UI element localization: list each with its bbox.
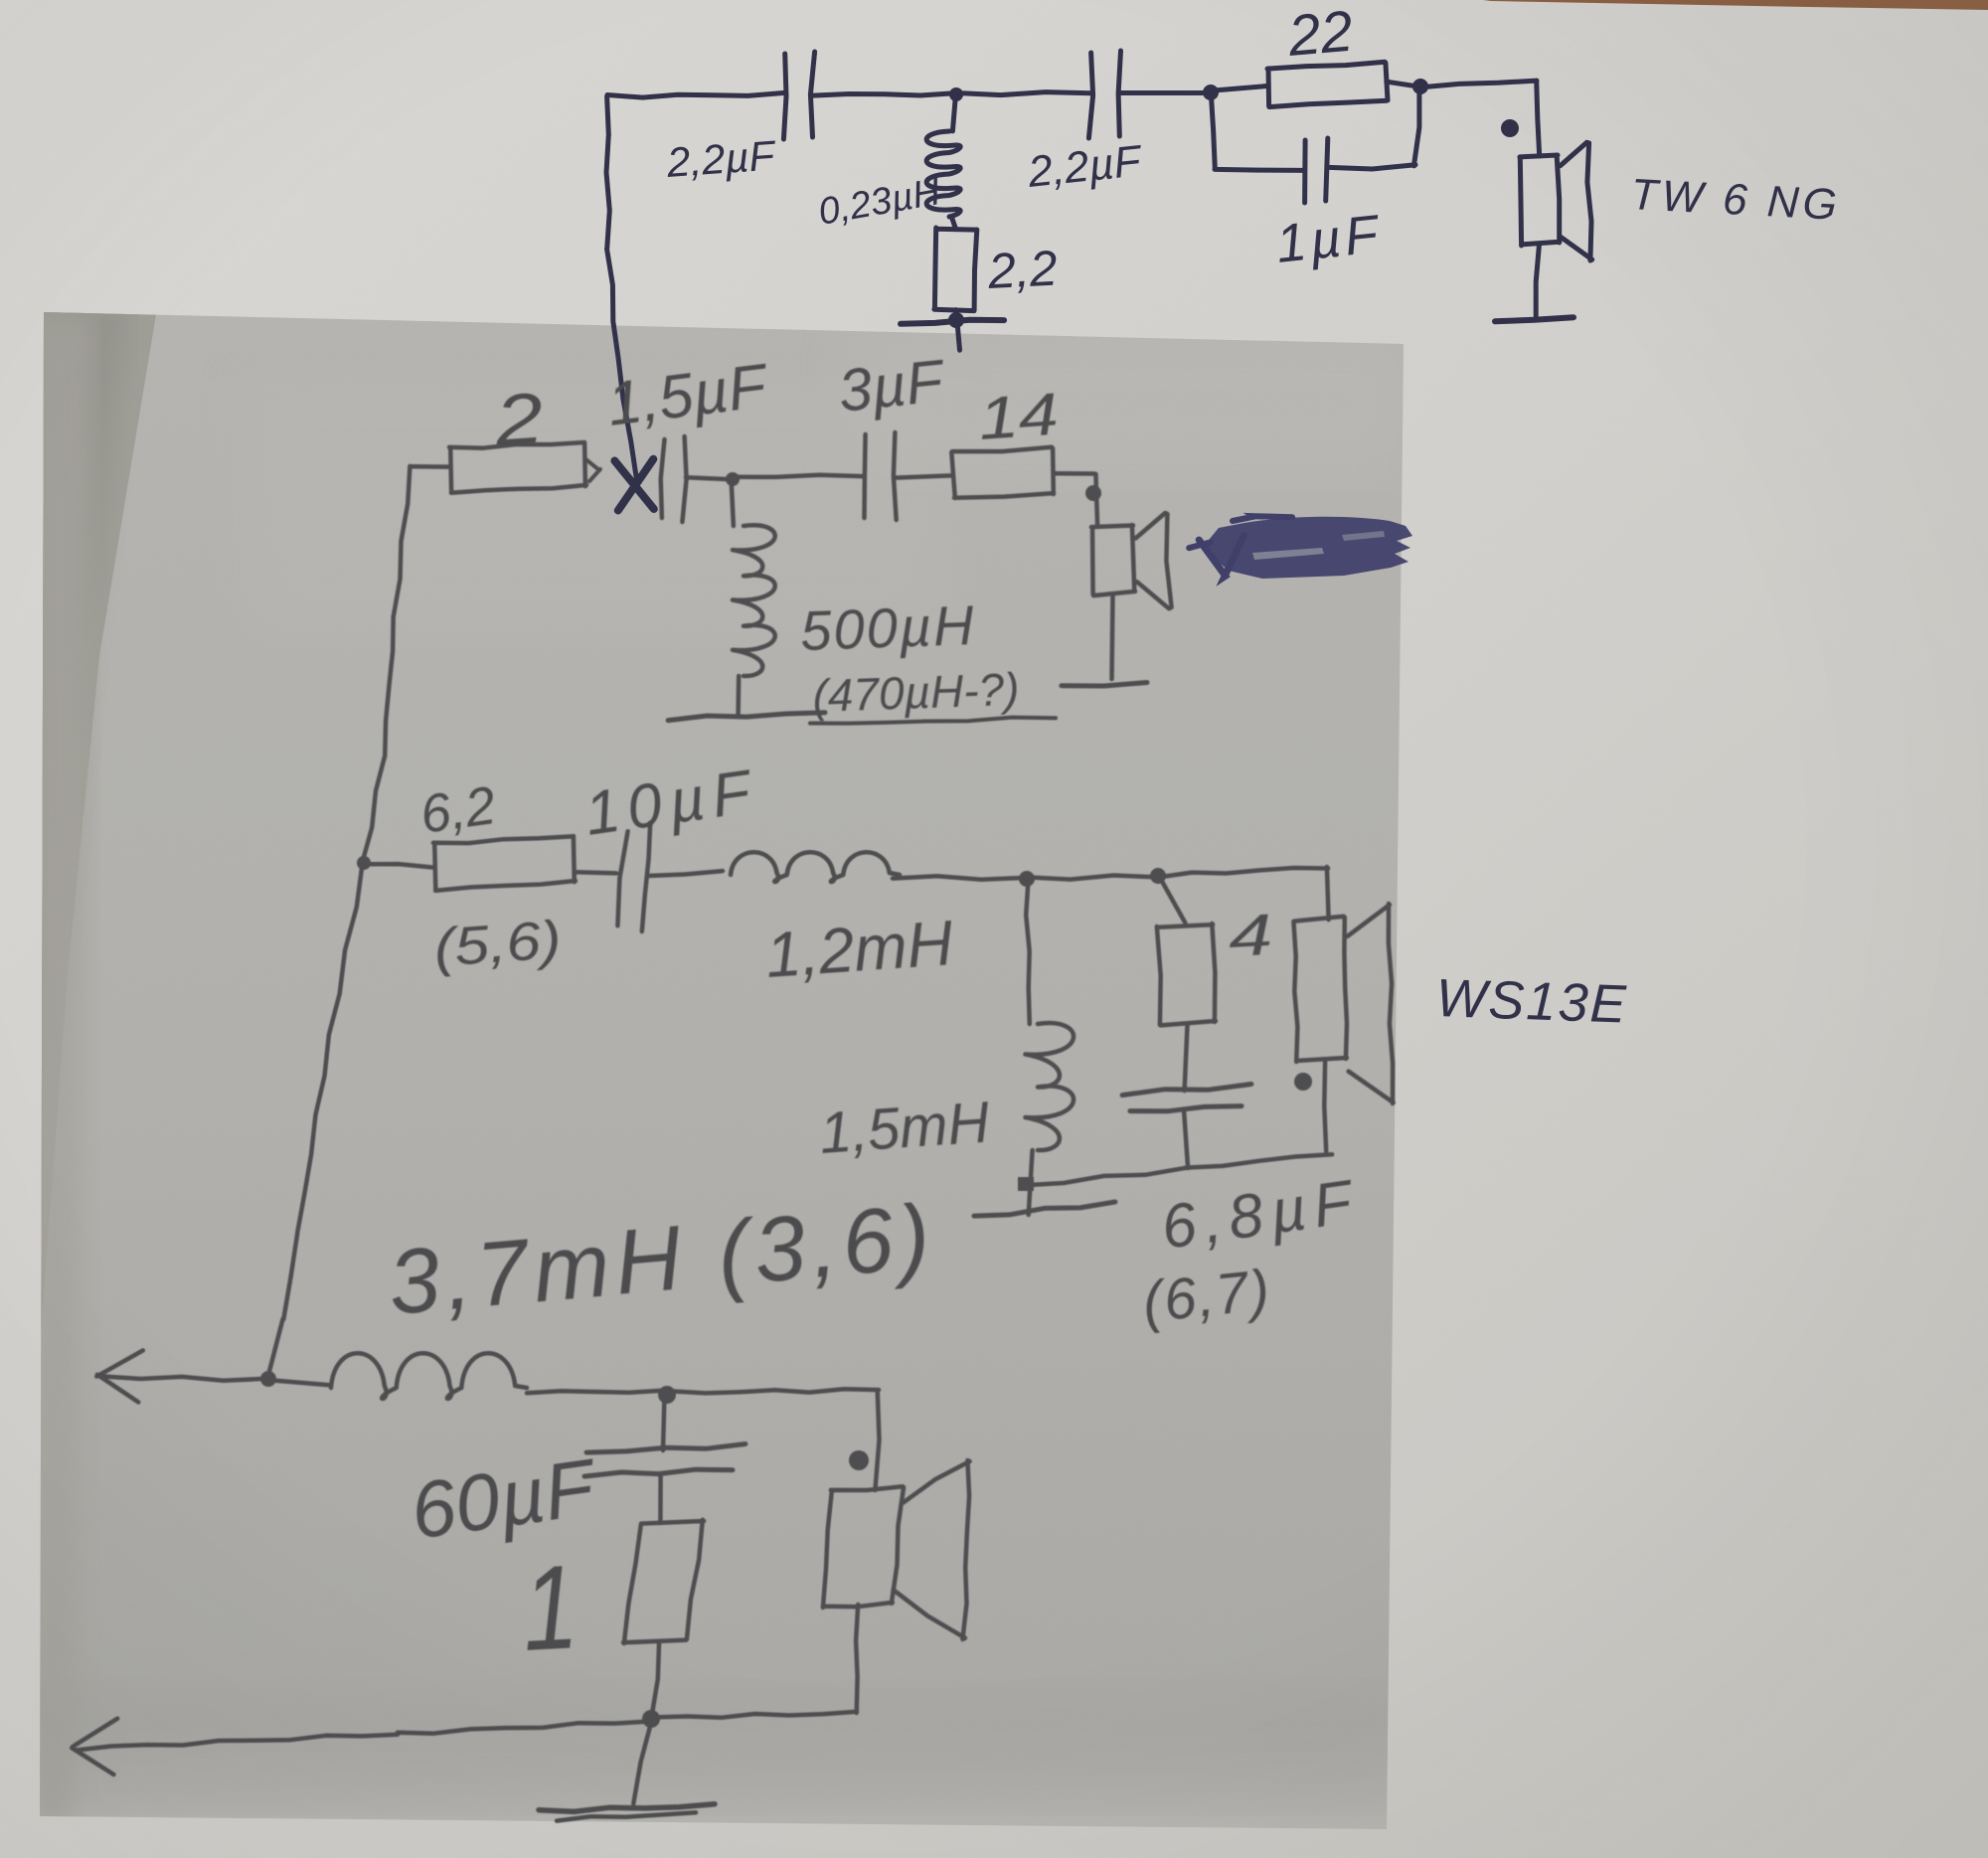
wire xyxy=(648,871,723,876)
wire: long left bus down xyxy=(362,466,410,863)
copy shading (clipped) xyxy=(30,298,1411,1824)
junction blob xyxy=(1018,1177,1034,1191)
wire xyxy=(658,1475,663,1523)
X correction mark at midrange input xyxy=(614,461,653,510)
inductor 0,23mH (shunt coil) xyxy=(952,94,955,131)
wire xyxy=(1185,1025,1188,1091)
photocopy grey sheet xyxy=(40,312,1404,1829)
capacitor 1uF (parallel with 22) xyxy=(1302,140,1308,203)
wire xyxy=(671,1389,880,1490)
resistor 4 (box) xyxy=(1157,924,1216,1025)
wire xyxy=(1054,473,1097,526)
wire xyxy=(956,92,1090,95)
wire xyxy=(1026,879,1030,1024)
node junction dot (midbass tap) xyxy=(357,856,371,870)
capacitor 10uF xyxy=(617,831,627,926)
resistor 6,2 (box) xyxy=(433,836,576,891)
wire xyxy=(1210,86,1267,91)
ground (woofer return) xyxy=(633,1721,651,1803)
capacitor 3uF xyxy=(865,434,866,518)
wire xyxy=(652,1641,660,1717)
node junction dot xyxy=(949,87,963,101)
resistor 2 (box, midrange series) xyxy=(449,442,586,493)
wire: input left vertical from top rail down to X xyxy=(606,96,637,483)
underline below (470uH-?) xyxy=(810,718,1056,724)
wire xyxy=(896,475,951,477)
wire xyxy=(364,864,432,867)
inductor 1,2mH (series humps) xyxy=(731,852,900,882)
bottom rail (midbass cell) xyxy=(1023,1154,1332,1185)
inductor 1,5mH (shunt coil) xyxy=(1026,1023,1075,1150)
speaker TW6NG horn xyxy=(1561,142,1592,260)
node polarity dot (midrange) xyxy=(1085,485,1101,501)
wire stub xyxy=(1029,1150,1033,1215)
speaker woofer horn xyxy=(894,1460,970,1639)
wire xyxy=(1158,867,1329,920)
tweeter polarity dot xyxy=(1501,119,1519,137)
wire: tweeter top rail left xyxy=(607,93,783,98)
node junction dot xyxy=(1019,871,1035,887)
wire xyxy=(663,1395,665,1450)
speaker WS13E (driver box) xyxy=(1293,917,1347,1062)
wire xyxy=(576,872,616,873)
capacitor 1,5uF xyxy=(661,439,665,518)
polarity dot (WS13E) xyxy=(1294,1073,1312,1091)
resistor 2,2 (box) xyxy=(934,228,977,311)
wire xyxy=(733,475,863,477)
wire xyxy=(686,477,732,479)
return tick (midrange) xyxy=(1062,683,1147,687)
inductor 3,7mH (series humps) xyxy=(331,1353,527,1399)
node junction dot xyxy=(726,472,740,486)
input arrow upper xyxy=(99,1376,264,1381)
wire xyxy=(411,464,449,469)
node junction dot xyxy=(642,1710,660,1728)
wire xyxy=(527,1391,663,1394)
resistor 22 (box) xyxy=(1267,62,1388,106)
ground tick (midbass) xyxy=(974,1202,1115,1216)
capacitor 60uF (plates) xyxy=(586,1444,745,1453)
ground stub xyxy=(957,323,959,350)
wire xyxy=(736,676,741,715)
chevron at resistor output xyxy=(585,459,600,481)
speaker TW6NG (driver box) xyxy=(1520,155,1560,246)
wire to tweeter xyxy=(1420,81,1540,156)
wire xyxy=(893,876,1026,880)
ground bar xyxy=(901,320,1004,324)
wire xyxy=(1324,1062,1326,1151)
wire xyxy=(1120,90,1210,95)
table edge strip top right xyxy=(1483,0,1988,10)
speaker midrange horn xyxy=(1135,513,1171,608)
node junction dot xyxy=(658,1386,676,1404)
wire xyxy=(813,93,956,96)
ground (tweeter return) xyxy=(1495,317,1574,321)
bottom rail with input arrow lower xyxy=(76,1722,651,1751)
wire xyxy=(1329,88,1419,169)
wire xyxy=(1184,1112,1188,1168)
wire xyxy=(1387,82,1420,86)
wire xyxy=(1027,876,1157,880)
speaker woofer (driver box) xyxy=(823,1486,904,1607)
node junction dot (woofer tap) xyxy=(260,1371,276,1387)
speaker WS13E horn xyxy=(1348,904,1394,1103)
wire: parallel branch down-right xyxy=(1211,94,1303,170)
resistor 14 (box) xyxy=(951,447,1054,498)
wire xyxy=(732,479,734,526)
ground (midrange shunt) xyxy=(668,713,825,721)
node junction dot xyxy=(1203,84,1219,100)
wire xyxy=(1536,246,1539,318)
polarity dot (woofer) xyxy=(849,1450,869,1470)
capacitor 2,2uF series (left) xyxy=(783,54,786,139)
wire xyxy=(956,310,958,320)
wire xyxy=(1112,594,1113,679)
wire xyxy=(268,1380,331,1385)
capacitor 6,8uF (plates) xyxy=(1122,1085,1251,1096)
node junction dot xyxy=(1412,79,1428,94)
capacitor 2,2uF series (second) xyxy=(1088,53,1092,138)
node junction dot xyxy=(1150,868,1166,884)
inductor 500uH (shunt coil) xyxy=(733,525,775,676)
blue scribble (crossed-out word) xyxy=(1189,516,1412,579)
speaker midrange (driver box) xyxy=(1091,525,1135,595)
wire xyxy=(653,1605,858,1718)
resistor 1 (box) xyxy=(623,1520,704,1643)
wire xyxy=(1160,878,1185,923)
